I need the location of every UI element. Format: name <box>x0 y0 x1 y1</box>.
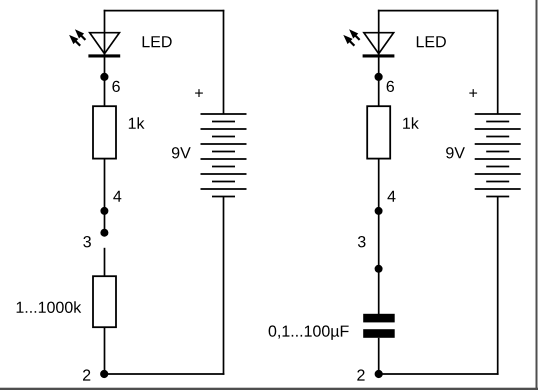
LED D2 triangle <box>364 33 394 54</box>
capacitor C1 bottom plate <box>363 329 395 338</box>
LED D1 emission arrow 1 <box>75 29 86 40</box>
label pin 6 left <box>112 81 119 92</box>
wire battery plus stub right <box>497 10 499 115</box>
resistor R1 1k left <box>93 106 116 158</box>
wire R2 to node 2 left <box>104 327 106 374</box>
LED D2 emission arrow 1 <box>349 29 360 40</box>
node 4 dot right <box>375 207 383 215</box>
wire C1 to node 2 right <box>378 338 380 374</box>
label 1k right <box>403 117 419 129</box>
label 2 right <box>357 369 364 380</box>
wire top horizontal left circuit (LED anode to battery +) <box>104 10 225 12</box>
wire node 2 to battery minus right <box>379 373 499 375</box>
LED D1 triangle <box>90 33 120 54</box>
label 9V left battery <box>172 147 191 158</box>
LED D1 cathode bar <box>88 54 120 57</box>
wire vertical through LED D2 <box>378 10 380 107</box>
LED D1 emission arrow 2 <box>69 35 80 46</box>
node 3 dot left <box>100 229 108 237</box>
capacitor C1 top plate <box>363 314 395 323</box>
label LED right <box>417 36 446 47</box>
wire node 2 to battery minus left <box>104 373 224 375</box>
label 4 left <box>113 191 121 202</box>
node 6 dot right <box>375 73 383 81</box>
battery BT1 9V left plates <box>201 114 247 197</box>
label 0,1...100uF <box>269 325 349 339</box>
wire R3 to node 4 right <box>378 159 380 211</box>
label 3 left <box>83 236 91 247</box>
frame shadow right edge <box>536 0 538 390</box>
label 1...1000k <box>17 301 82 313</box>
label 3 right <box>358 236 366 247</box>
label LED left <box>143 36 172 47</box>
label 2 left <box>83 369 90 380</box>
wire battery plus stub left <box>223 10 225 115</box>
frame shadow bottom edge <box>0 388 538 390</box>
node 3 dot right <box>375 265 383 273</box>
wire vertical through LED D1 <box>104 10 106 107</box>
battery BT2 9V right plates <box>475 114 521 197</box>
label pin 6 right <box>387 81 394 92</box>
label 4 right <box>387 191 395 202</box>
LED D2 cathode bar <box>363 54 395 57</box>
wire top horizontal right circuit <box>378 10 499 12</box>
node 4 dot left <box>100 207 108 215</box>
node 2 dot left <box>100 370 108 378</box>
node 2 dot right <box>375 370 383 378</box>
wire gap below node 3 to R2 left <box>104 248 106 276</box>
wire R1 to node 4 left <box>104 159 106 211</box>
label + left battery <box>195 89 203 97</box>
LED D2 emission arrow 2 <box>343 35 354 46</box>
wire node 4 to node 3 right <box>378 211 380 269</box>
resistor R3 1k right <box>367 106 390 158</box>
label 9V right battery <box>446 147 465 158</box>
resistor R2 1...1000k left <box>93 276 116 327</box>
wire battery minus stub right <box>497 197 499 375</box>
label 1k left <box>129 117 145 129</box>
wire battery minus stub left <box>223 197 225 375</box>
label + right battery <box>469 89 477 97</box>
wire node 3 to capacitor C1 <box>378 269 380 314</box>
node 6 dot left <box>100 73 108 81</box>
wire node 4 to node 3 left <box>104 211 106 233</box>
